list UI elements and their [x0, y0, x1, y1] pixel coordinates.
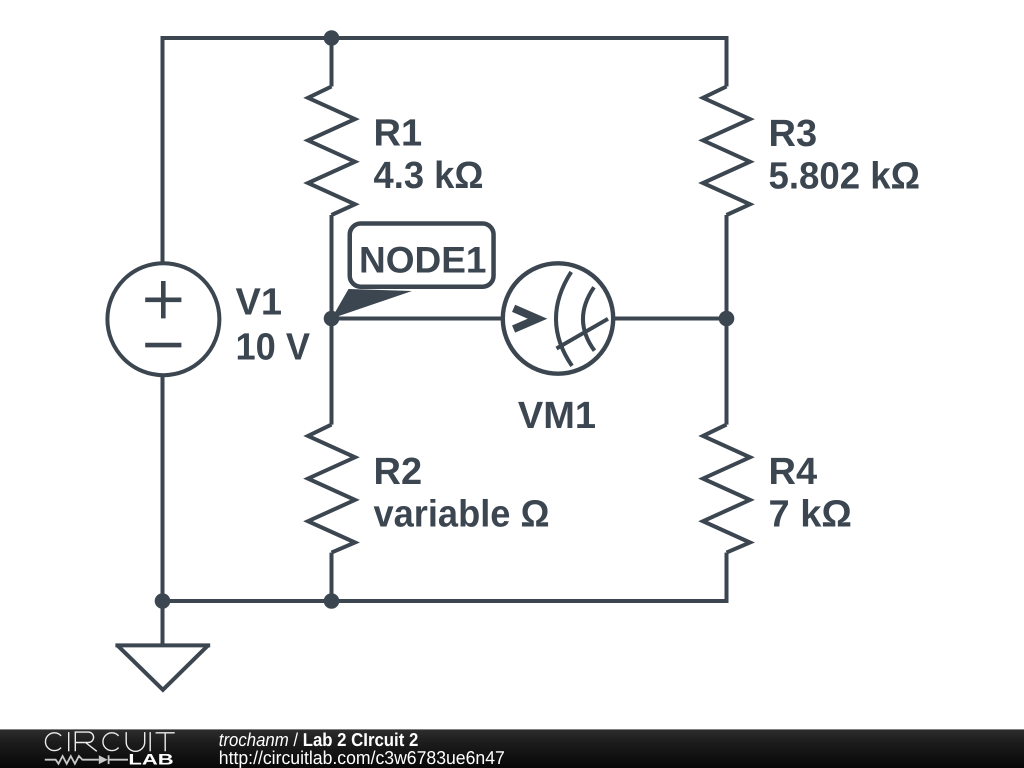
- wire top rail: [163, 38, 729, 263]
- junction dot bottom left: [155, 593, 171, 609]
- wire node1 to R2: [330, 319, 334, 425]
- junction dot node1: [324, 311, 340, 327]
- node NODE1 flag: [332, 224, 494, 319]
- wire R3 to R4: [725, 215, 729, 425]
- wire R2 bottom: [330, 553, 334, 601]
- logo diode triangle: [99, 755, 108, 764]
- wire node1 to voltmeter: [332, 317, 504, 321]
- wire left rail bottom: [161, 376, 165, 601]
- svg-text:4.3 kΩ: 4.3 kΩ: [374, 155, 484, 197]
- wire voltmeter to right rail: [613, 317, 727, 321]
- wire R1 bottom: [330, 215, 334, 319]
- junction dot right mid: [719, 311, 735, 327]
- resistor R2: [308, 425, 355, 553]
- svg-text:LAB: LAB: [128, 752, 173, 768]
- wire right rail top to R3: [725, 36, 729, 87]
- svg-text:VM1: VM1: [518, 395, 596, 437]
- svg-text:5.802 kΩ: 5.802 kΩ: [769, 156, 921, 198]
- svg-text:7 kΩ: 7 kΩ: [769, 494, 852, 536]
- svg-text:http://circuitlab.com/c3w6783u: http://circuitlab.com/c3w6783ue6n47: [219, 747, 505, 768]
- voltmeter VM1: [503, 263, 613, 373]
- svg-text:R1: R1: [374, 113, 423, 155]
- svg-text:10 V: 10 V: [236, 327, 311, 369]
- junction dot top: [324, 30, 340, 46]
- resistor R4: [703, 425, 750, 553]
- logo CIRCUIT: [45, 732, 174, 751]
- logo squiggle resistor + diode: [45, 755, 128, 764]
- footer bar: [0, 729, 1024, 768]
- wire R4 to bottom rail: [725, 553, 729, 603]
- voltage source V1: [107, 263, 219, 375]
- svg-text:variable Ω: variable Ω: [374, 494, 550, 536]
- svg-text:R2: R2: [374, 451, 423, 493]
- svg-text:R3: R3: [769, 113, 818, 155]
- resistor R1: [308, 87, 355, 216]
- resistor R3: [703, 87, 750, 216]
- svg-text:V1: V1: [236, 282, 282, 324]
- svg-text:R4: R4: [769, 451, 818, 493]
- ground: [115, 601, 210, 690]
- wire bottom rail: [163, 599, 729, 603]
- junction dot bottom R2: [324, 593, 340, 609]
- svg-text:NODE1: NODE1: [359, 240, 486, 281]
- wire top rail to R1: [330, 38, 334, 87]
